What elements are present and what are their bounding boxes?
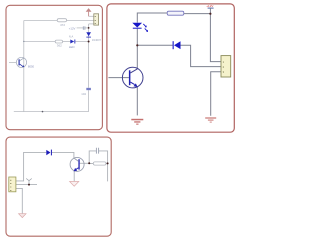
svg-text:1N4007: 1N4007 <box>92 38 102 42</box>
wire node to diode <box>137 44 172 46</box>
wire pin3 to ground <box>16 188 22 213</box>
panel border (sheet 1) <box>6 5 102 129</box>
junction node LED-diode-collector <box>136 44 138 46</box>
wire resistor to power node <box>184 13 211 15</box>
wire cap to node <box>85 27 89 29</box>
connector J1 pin marks <box>95 16 96 23</box>
panel border (sheet 3) <box>6 137 111 236</box>
wire resistor leads <box>89 162 107 164</box>
LED2 emission arrows <box>143 24 147 31</box>
wire pin3 stub <box>89 23 94 25</box>
svg-text:8050: 8050 <box>28 64 35 68</box>
capacitor C3 plates <box>96 148 98 154</box>
wire pin2 <box>16 184 37 186</box>
panel border (sheet 2) <box>107 4 234 132</box>
svg-text:104: 104 <box>81 92 86 96</box>
resistor R1 <box>57 19 66 22</box>
diode D2 <box>173 41 181 49</box>
power arrow +12V <box>86 8 92 16</box>
resistor R4 <box>93 162 106 165</box>
junction node cap <box>88 27 90 29</box>
junction node mid rail <box>23 41 24 42</box>
junction node resistor right <box>107 162 109 164</box>
wire mid rail <box>24 40 55 42</box>
junction node power <box>209 13 211 15</box>
wire pin1 up and top rail <box>16 152 46 181</box>
svg-text:+12V: +12V <box>206 4 213 8</box>
svg-text:N.A: N.A <box>69 34 74 38</box>
ground GND3 open triangle <box>70 182 79 187</box>
wire power node down to connector pin1 <box>210 14 221 62</box>
antenna symbol <box>26 179 32 185</box>
ground GND2 <box>205 117 216 122</box>
transistor Q3 <box>70 157 84 171</box>
wire base <box>108 77 128 79</box>
wire power arrow to pin1 <box>89 15 94 17</box>
connector J3 pin marks <box>10 180 11 190</box>
wire diode to connector pin2 <box>180 45 221 66</box>
wire LED top to resistor <box>137 13 167 23</box>
wire R2 to LED <box>63 41 71 43</box>
wire connector pin3 to ground <box>211 72 221 116</box>
capacitor C2 on vertical wire <box>86 88 91 89</box>
wire base stub <box>9 61 16 63</box>
wire diode branch vertical <box>88 24 90 112</box>
wire collector-emitter vertical <box>23 21 25 112</box>
connector J2 pin numbers <box>223 60 225 74</box>
svg-text:362: 362 <box>57 43 62 47</box>
wire emitter down <box>136 86 138 115</box>
wire top rail <box>24 20 57 22</box>
connector J2 <box>221 56 231 77</box>
connector J3 <box>9 177 16 192</box>
+12V power port <box>206 4 213 14</box>
diode D3 <box>46 150 52 156</box>
svg-text:+12V: +12V <box>69 26 76 30</box>
wire LED bottom to node <box>136 29 138 46</box>
junction node pin2 <box>28 184 30 186</box>
wire base <box>80 162 90 164</box>
junction node LED-diode <box>88 41 90 43</box>
capacitor C1 plates <box>83 26 85 29</box>
LED LED2 <box>132 23 142 29</box>
wire node down to collector <box>136 45 138 69</box>
resistor R3 <box>167 11 184 15</box>
wire emitter down <box>73 171 75 181</box>
svg-text:LED: LED <box>69 45 76 49</box>
junction dot bottom rail <box>42 111 44 113</box>
ground GND4 open triangle <box>19 214 26 218</box>
transistor Q2 <box>122 67 143 88</box>
wire diode to transistor <box>52 152 74 158</box>
wire LED to node <box>75 41 88 43</box>
connector J1 <box>94 14 99 25</box>
wire cap left branch <box>89 151 96 163</box>
svg-text:472: 472 <box>60 23 65 27</box>
ground GND1 <box>131 119 143 125</box>
wire resistor R1 to connector pin2 <box>67 19 94 21</box>
transistor Q1 <box>16 57 26 67</box>
junction node base <box>88 162 90 164</box>
wire +12V stub to cap <box>77 27 84 29</box>
LED LED1 <box>70 40 75 44</box>
diode D1 <box>86 32 91 37</box>
resistor R2 <box>55 40 62 43</box>
wire bottom rail <box>14 111 89 113</box>
wire cap right branch <box>99 151 108 182</box>
